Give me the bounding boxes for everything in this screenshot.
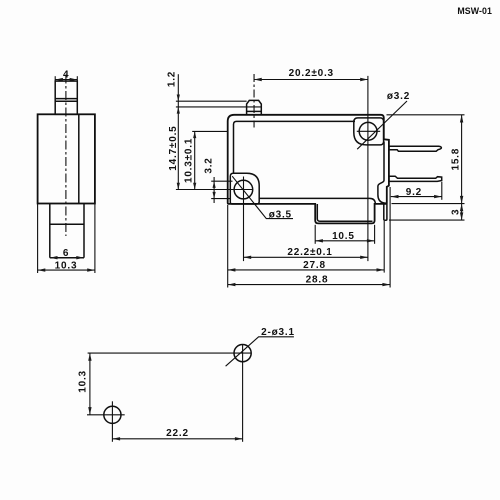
svg-text:3: 3 xyxy=(451,209,462,215)
svg-text:15.8: 15.8 xyxy=(450,148,461,171)
svg-text:14.7±0.5: 14.7±0.5 xyxy=(168,125,179,170)
svg-text:10.3: 10.3 xyxy=(78,370,89,393)
svg-text:ø3.2: ø3.2 xyxy=(387,91,410,102)
svg-text:10.5: 10.5 xyxy=(332,231,355,242)
svg-text:20.2±0.3: 20.2±0.3 xyxy=(289,68,334,79)
svg-text:4: 4 xyxy=(63,70,69,81)
svg-text:28.8: 28.8 xyxy=(306,275,329,286)
svg-text:22.2±0.1: 22.2±0.1 xyxy=(287,247,332,258)
svg-text:2-ø3.1: 2-ø3.1 xyxy=(261,327,295,338)
svg-text:10.3±0.1: 10.3±0.1 xyxy=(184,138,195,183)
svg-text:3.2: 3.2 xyxy=(203,157,214,173)
svg-text:22.2: 22.2 xyxy=(166,428,189,439)
svg-text:9.2: 9.2 xyxy=(406,187,422,198)
svg-text:MSW-01: MSW-01 xyxy=(457,6,492,16)
svg-text:1.2: 1.2 xyxy=(167,71,178,87)
svg-text:ø3.5: ø3.5 xyxy=(269,210,292,221)
svg-text:27.8: 27.8 xyxy=(303,260,326,271)
svg-text:10.3: 10.3 xyxy=(55,260,78,271)
svg-text:6: 6 xyxy=(63,248,69,259)
